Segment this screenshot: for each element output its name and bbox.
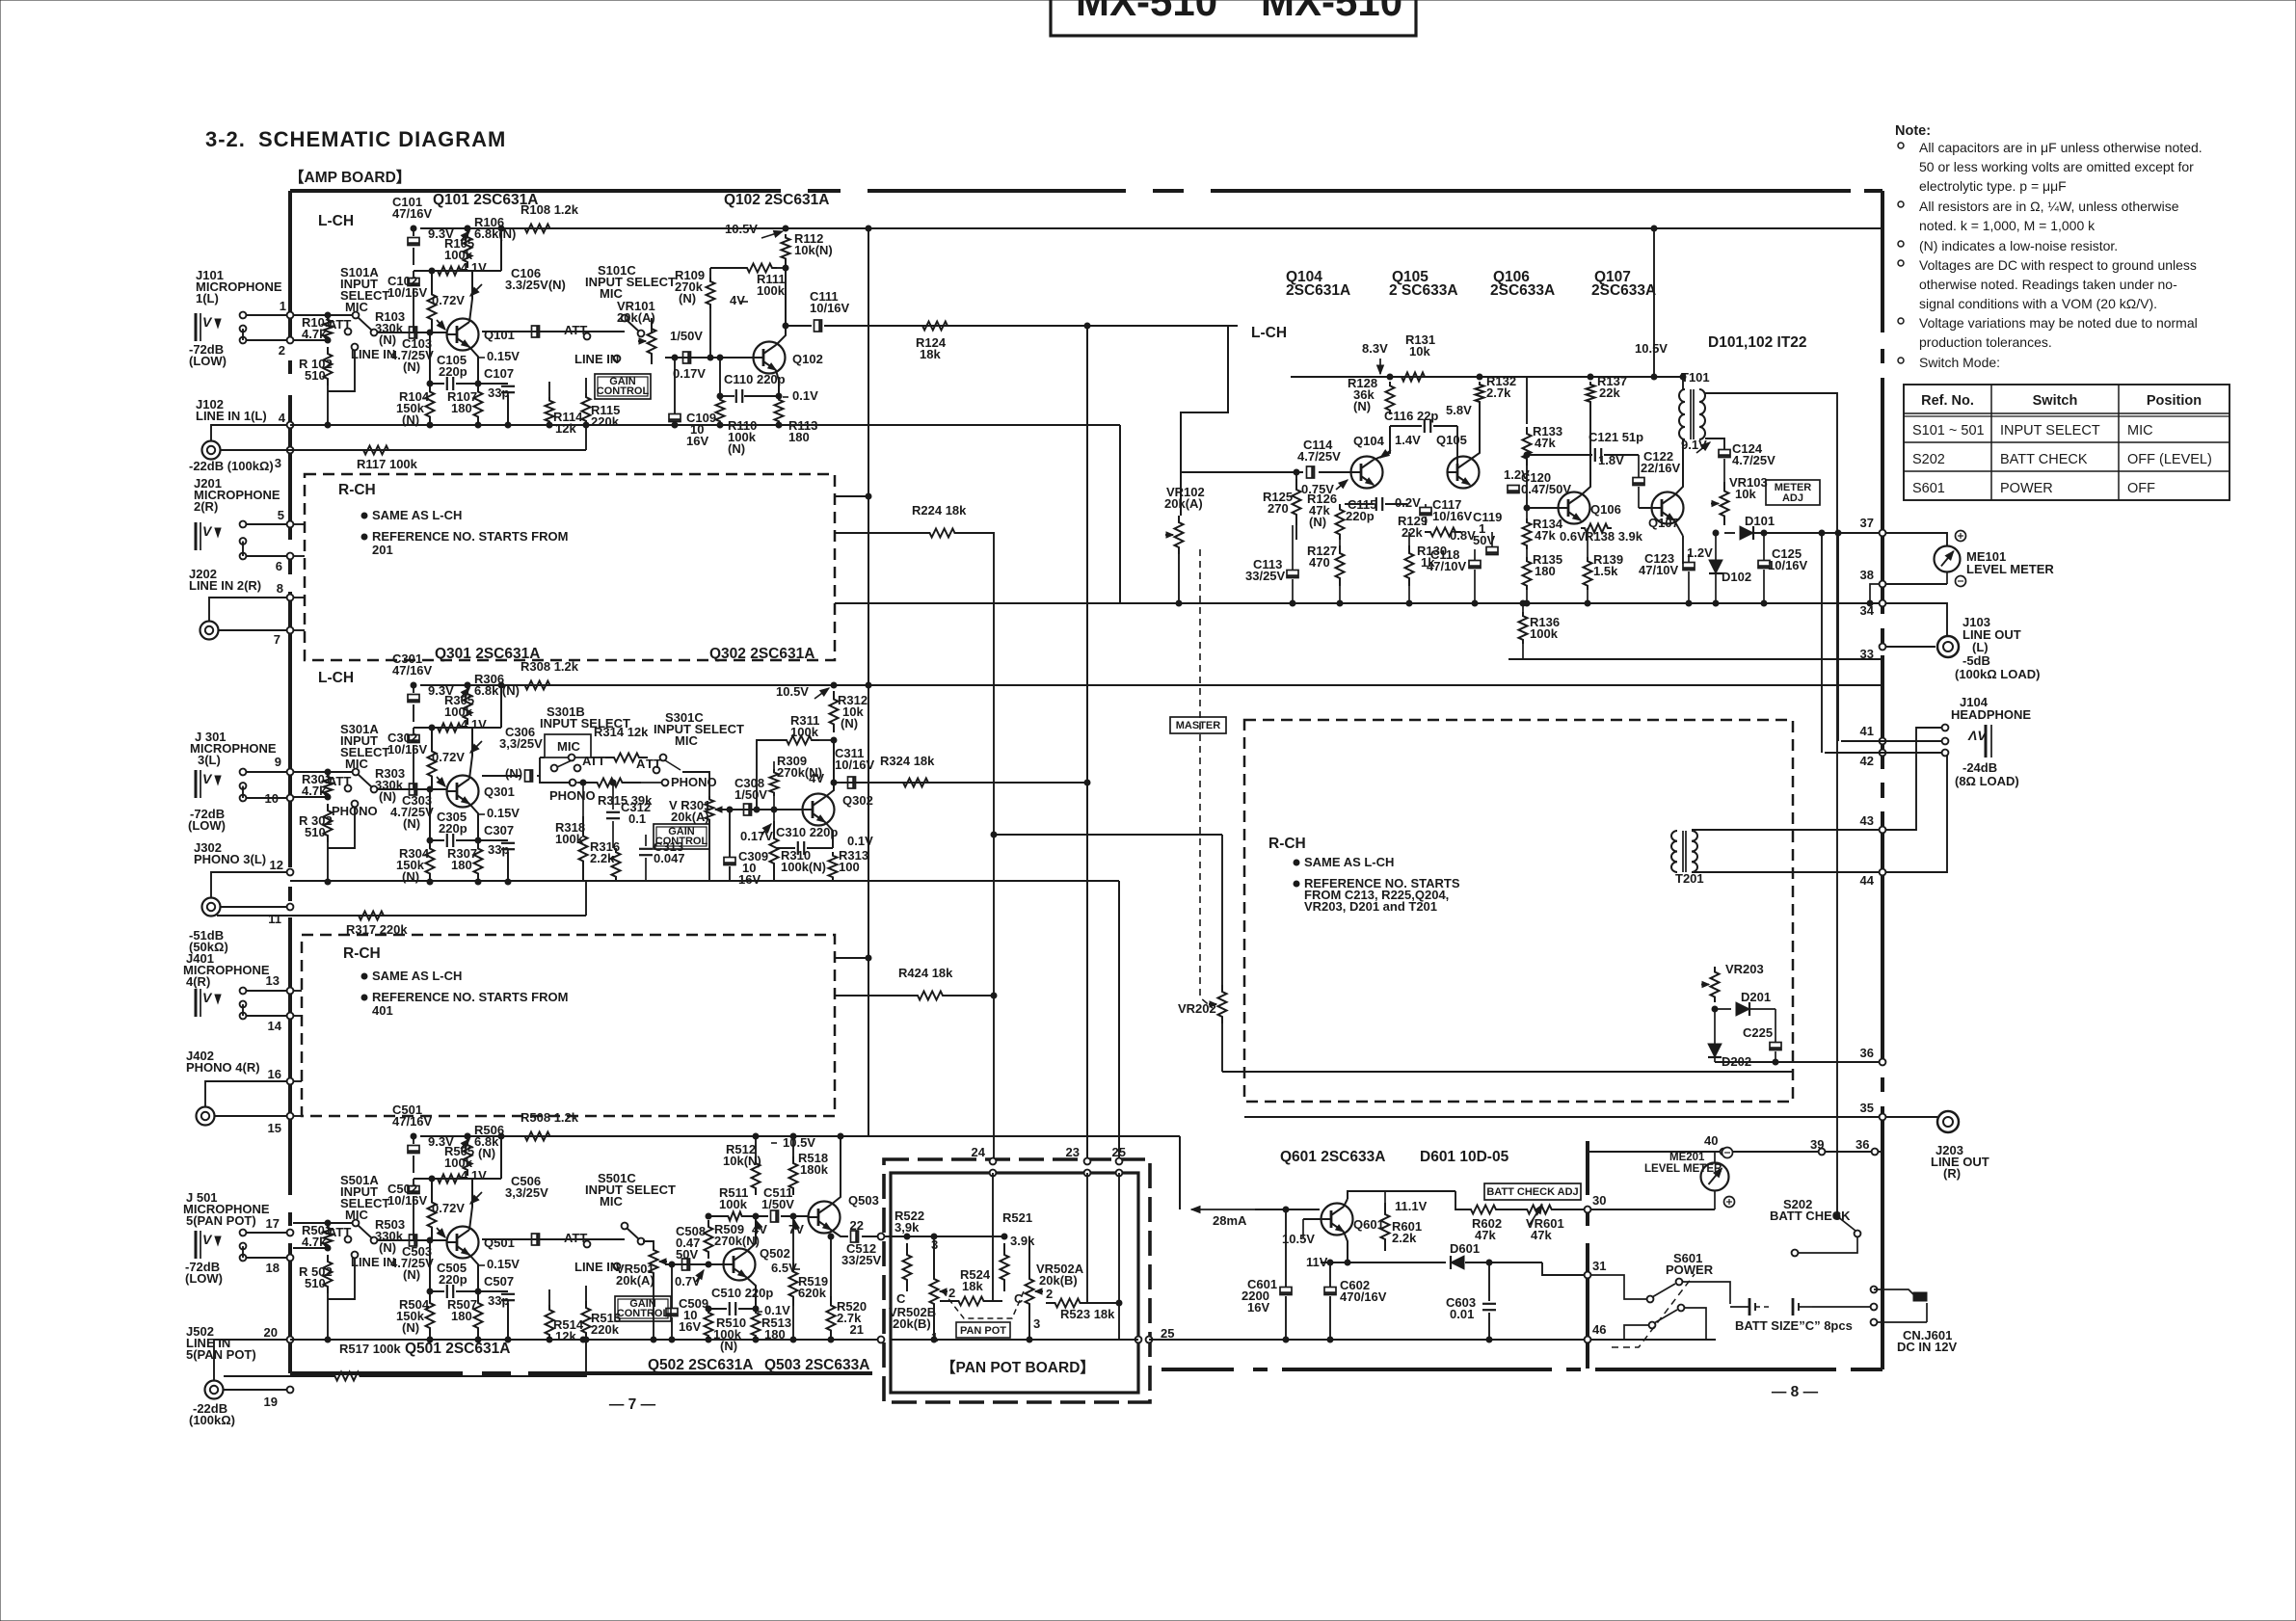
svg-text:VR202: VR202 bbox=[1178, 1001, 1216, 1016]
svg-text:Q105: Q105 bbox=[1436, 433, 1467, 447]
diode D201 bbox=[1715, 1008, 1731, 1010]
capacitor C303 bbox=[410, 784, 417, 795]
svg-text:MIC: MIC bbox=[2127, 423, 2153, 438]
resistor R309 bbox=[770, 769, 779, 796]
svg-text:33p: 33p bbox=[488, 1293, 509, 1308]
wire VR202 vertical bbox=[1221, 835, 1223, 985]
svg-text:47k: 47k bbox=[1475, 1228, 1496, 1242]
svg-text:10/16V: 10/16V bbox=[387, 1193, 428, 1208]
resistor R115 bbox=[582, 393, 591, 425]
wire collector Q302 bbox=[825, 740, 834, 797]
junction dots rail right bbox=[547, 1337, 552, 1342]
svg-text:Switch: Switch bbox=[2033, 393, 2078, 409]
wire batt to 46 bbox=[1590, 1339, 1716, 1341]
svg-text:R523 18k: R523 18k bbox=[1060, 1307, 1115, 1321]
wire bus A down bbox=[868, 228, 869, 1136]
svg-text:5(PAN POT): 5(PAN POT) bbox=[186, 1347, 256, 1362]
svg-text:Q601: Q601 bbox=[1353, 1217, 1384, 1232]
wire bbox=[247, 339, 287, 341]
wire pan in bbox=[884, 1236, 907, 1237]
pin 33 bbox=[1880, 644, 1886, 651]
wire bbox=[247, 1232, 287, 1234]
wire T201 to 44 bbox=[1692, 871, 1882, 873]
capacitor C123 bbox=[1683, 563, 1695, 571]
wire bbox=[247, 1257, 287, 1259]
resistor R133 bbox=[1523, 427, 1532, 465]
svg-text:0.047: 0.047 bbox=[654, 851, 685, 865]
wire 38 bbox=[1885, 583, 1947, 585]
svg-text:10/16V: 10/16V bbox=[387, 285, 428, 300]
svg-text:620k: 620k bbox=[798, 1286, 827, 1300]
svg-text:10.5V: 10.5V bbox=[1282, 1232, 1315, 1246]
wire T101 secondary top bbox=[1705, 393, 1837, 1216]
resistor R304 bbox=[426, 840, 435, 882]
diode D601 bbox=[1451, 1256, 1464, 1269]
svg-text:R517 100k: R517 100k bbox=[339, 1342, 401, 1356]
svg-text:Q106: Q106 bbox=[1590, 502, 1621, 517]
pin 46 bbox=[1585, 1337, 1591, 1343]
svg-text:0.72V: 0.72V bbox=[432, 293, 465, 307]
transistor Q301 bbox=[447, 776, 479, 808]
resistor R305 bbox=[434, 724, 465, 732]
wire base bbox=[377, 332, 446, 333]
svg-text:8.3V: 8.3V bbox=[1362, 341, 1388, 356]
svg-text:— 7 —: — 7 — bbox=[609, 1396, 656, 1413]
svg-text:12k: 12k bbox=[555, 1329, 576, 1343]
wire T101 secondary bottom bbox=[1705, 438, 1724, 449]
transistor Q302 bbox=[803, 794, 835, 826]
svg-text:All resistors are in Ω, ¼W, un: All resistors are in Ω, ¼W, unless other… bbox=[1919, 199, 2179, 214]
transistor Q101 bbox=[447, 319, 479, 351]
svg-text:4: 4 bbox=[279, 411, 286, 425]
svg-text:HEADPHONE: HEADPHONE bbox=[1951, 707, 2031, 722]
svg-text:3(L): 3(L) bbox=[198, 753, 221, 767]
svg-text:20k(B): 20k(B) bbox=[893, 1316, 931, 1331]
svg-text:33p: 33p bbox=[488, 385, 509, 400]
wire line-in drop bbox=[327, 1293, 329, 1340]
svg-text:16V: 16V bbox=[738, 872, 761, 887]
resistor R508 bbox=[511, 1132, 564, 1141]
svg-text:180: 180 bbox=[764, 1327, 786, 1342]
svg-text:47/16V: 47/16V bbox=[392, 206, 433, 221]
wire base Q302 bbox=[718, 809, 803, 810]
wire 33 to J103 bbox=[1885, 646, 1936, 648]
svg-text:2(R): 2(R) bbox=[194, 499, 218, 514]
wire T201 to 43 bbox=[1692, 829, 1882, 831]
svg-text:Q102: Q102 bbox=[792, 352, 823, 366]
svg-text:35: 35 bbox=[1860, 1101, 1874, 1115]
svg-text:1/50V: 1/50V bbox=[734, 787, 767, 802]
svg-text:470: 470 bbox=[1309, 555, 1330, 570]
resistor R509 bbox=[705, 1220, 713, 1259]
svg-text:PHONO 3(L): PHONO 3(L) bbox=[194, 852, 266, 866]
svg-text:18k: 18k bbox=[920, 347, 941, 361]
potentiometer VR301 bbox=[706, 796, 714, 823]
wire ch3 out bbox=[841, 782, 858, 784]
svg-text:11: 11 bbox=[268, 912, 281, 926]
wire rch2 out1 bbox=[835, 957, 868, 959]
resistor R302 bbox=[324, 804, 333, 842]
svg-text:13: 13 bbox=[266, 973, 280, 988]
svg-text:Q301: Q301 bbox=[484, 784, 515, 799]
resistor R424 bbox=[906, 992, 954, 1000]
wire rch2 out2 bbox=[835, 995, 906, 997]
svg-text:Q501 2SC631A: Q501 2SC631A bbox=[405, 1341, 510, 1357]
resistor R311 bbox=[779, 736, 819, 745]
svg-text:23: 23 bbox=[1066, 1145, 1080, 1159]
wire power rail bbox=[1255, 1209, 1320, 1210]
svg-text:34: 34 bbox=[1860, 603, 1875, 618]
svg-text:Q502 2SC631A: Q502 2SC631A bbox=[648, 1357, 753, 1373]
wire emitter2 bbox=[776, 370, 779, 396]
svg-text:(R): (R) bbox=[1943, 1166, 1961, 1181]
svg-text:1.8V: 1.8V bbox=[1598, 453, 1624, 467]
wire base Q502 bbox=[665, 1263, 723, 1265]
svg-text:401: 401 bbox=[372, 1003, 393, 1018]
wire pin13 into box bbox=[293, 990, 302, 992]
capacitor C309 bbox=[724, 858, 735, 865]
capacitor C310 bbox=[776, 847, 795, 849]
resistor R602 bbox=[1465, 1206, 1502, 1214]
switch mode table bbox=[1904, 385, 2229, 500]
wire node36 bbox=[1715, 1061, 1882, 1063]
wire node33 bbox=[1508, 658, 1882, 660]
resistor R513 bbox=[752, 1309, 761, 1340]
svg-text:4.7k: 4.7k bbox=[302, 327, 327, 341]
svg-text:R-CH: R-CH bbox=[343, 945, 381, 962]
wire ch top bus bbox=[420, 227, 1882, 229]
svg-text:LINE IN 2(R): LINE IN 2(R) bbox=[189, 578, 261, 593]
svg-text:20k(B): 20k(B) bbox=[1039, 1273, 1078, 1288]
wire emitter bbox=[469, 804, 478, 840]
svg-text:100k: 100k bbox=[555, 832, 584, 846]
svg-text:(N): (N) bbox=[728, 441, 745, 456]
svg-text:19: 19 bbox=[264, 1395, 278, 1409]
svg-text:(LOW): (LOW) bbox=[185, 1271, 223, 1286]
svg-text:production tolerances.: production tolerances. bbox=[1919, 334, 2052, 350]
resistor R224 bbox=[921, 529, 964, 538]
svg-text:TT: TT bbox=[646, 757, 661, 771]
svg-text:VR203: VR203 bbox=[1725, 962, 1764, 976]
wire bbox=[548, 1289, 550, 1305]
svg-text:3: 3 bbox=[931, 1237, 938, 1252]
wire mic row bbox=[540, 757, 545, 758]
svg-text:16V: 16V bbox=[679, 1319, 701, 1334]
capacitor C503 bbox=[410, 1235, 417, 1246]
wire q601 top bbox=[1348, 1191, 1388, 1199]
wire bbox=[247, 314, 287, 316]
wire s202 bbox=[1799, 1237, 1857, 1253]
svg-text:Q601 2SC633A: Q601 2SC633A bbox=[1280, 1149, 1385, 1165]
svg-text:20k(A): 20k(A) bbox=[671, 810, 709, 824]
AMP BOARD left border bbox=[288, 191, 292, 339]
svg-text:33p: 33p bbox=[488, 842, 509, 857]
svg-text:(100kΩ LOAD): (100kΩ LOAD) bbox=[1955, 667, 2040, 681]
wire bbox=[431, 271, 433, 281]
wire s301c out bbox=[682, 772, 709, 796]
svg-text:R-CH: R-CH bbox=[1268, 836, 1306, 852]
pin 30 bbox=[1585, 1207, 1591, 1213]
wire 42 feed bbox=[1821, 533, 1823, 753]
svg-text:47k: 47k bbox=[1535, 528, 1556, 543]
resistor R134 bbox=[1523, 518, 1532, 549]
svg-text:Q302 2SC631A: Q302 2SC631A bbox=[709, 646, 814, 662]
wire bbox=[247, 1015, 287, 1017]
capacitor C511 bbox=[771, 1210, 779, 1222]
svg-text:18k: 18k bbox=[962, 1279, 983, 1293]
svg-text:10.5V: 10.5V bbox=[776, 684, 809, 699]
capacitor C118 bbox=[1469, 561, 1481, 569]
svg-text:MX-510: MX-510 bbox=[1076, 0, 1217, 24]
capacitor C601 bbox=[1280, 1288, 1292, 1295]
svg-text:28mA: 28mA bbox=[1213, 1213, 1247, 1228]
svg-text:4.7/25V: 4.7/25V bbox=[1732, 453, 1775, 467]
svg-text:0.8V: 0.8V bbox=[1450, 528, 1476, 543]
wire Q601 emitter bbox=[1344, 1232, 1348, 1262]
wire base bbox=[377, 788, 446, 790]
svg-text:42: 42 bbox=[1860, 754, 1874, 768]
svg-text:INPUT SELECT: INPUT SELECT bbox=[654, 722, 744, 736]
svg-text:24: 24 bbox=[972, 1145, 986, 1159]
svg-text:0.15V: 0.15V bbox=[487, 806, 520, 820]
svg-text:TT: TT bbox=[590, 754, 605, 768]
wire bbox=[328, 350, 355, 391]
wire ch2 rail to master bbox=[835, 602, 1882, 604]
resistor R310 bbox=[770, 821, 779, 881]
svg-text:14: 14 bbox=[268, 1019, 282, 1033]
capacitor C113 bbox=[1287, 571, 1298, 578]
svg-text:0.15V: 0.15V bbox=[487, 349, 520, 363]
capacitor C603 bbox=[1482, 1303, 1496, 1305]
resistor R117 bbox=[347, 446, 405, 455]
svg-text:2 SC633A: 2 SC633A bbox=[1389, 282, 1458, 299]
svg-text:BATT CHECK: BATT CHECK bbox=[2000, 452, 2088, 467]
master linkage dashed bbox=[1200, 549, 1213, 1008]
svg-text:electrolytic type. p = μμF: electrolytic type. p = μμF bbox=[1919, 178, 2067, 194]
resistor R103 bbox=[428, 281, 437, 332]
transistor Q105 bbox=[1448, 457, 1480, 489]
capacitor C510 bbox=[708, 1308, 727, 1310]
svg-text:R224 18k: R224 18k bbox=[912, 503, 967, 518]
svg-text:10/16V: 10/16V bbox=[810, 301, 850, 315]
resistor R101 bbox=[324, 317, 333, 340]
svg-text:4.7k: 4.7k bbox=[302, 784, 327, 798]
capacitor C311 bbox=[848, 777, 856, 788]
svg-text:1(L): 1(L) bbox=[196, 291, 219, 306]
wire bbox=[964, 533, 994, 1161]
svg-text:220p: 220p bbox=[439, 364, 467, 379]
junction dots ch5 rail bbox=[580, 1337, 586, 1342]
resistor R111 bbox=[742, 264, 777, 273]
potentiometer VR101 bbox=[651, 318, 653, 333]
svg-text:22/16V: 22/16V bbox=[1641, 461, 1681, 475]
svg-text:4.1V: 4.1V bbox=[461, 717, 487, 731]
svg-text:C307: C307 bbox=[484, 823, 514, 837]
resistor R521 bbox=[1001, 1243, 1009, 1291]
resistor R104 bbox=[426, 384, 435, 425]
wire bbox=[500, 1136, 502, 1179]
wire bbox=[1089, 1302, 1119, 1304]
resistor R106 bbox=[464, 231, 472, 268]
svg-text:10/16V: 10/16V bbox=[1768, 558, 1808, 572]
svg-text:R138 3.9k: R138 3.9k bbox=[1585, 529, 1643, 544]
transistor Q502 bbox=[724, 1249, 756, 1281]
wire 30 meter bbox=[1590, 1209, 1715, 1210]
wire 44 bbox=[1885, 756, 1947, 872]
svg-text:20: 20 bbox=[264, 1325, 278, 1340]
svg-text:R314 12k: R314 12k bbox=[594, 725, 649, 739]
resistor R312 bbox=[830, 691, 839, 732]
svg-text:Q107: Q107 bbox=[1648, 516, 1679, 530]
svg-text:2: 2 bbox=[1046, 1287, 1053, 1301]
wire rch1 out1 bbox=[835, 495, 868, 497]
svg-text:2.2k: 2.2k bbox=[1392, 1231, 1417, 1245]
svg-text:15: 15 bbox=[268, 1121, 281, 1135]
potentiometer VR601 bbox=[1523, 1206, 1556, 1214]
svg-text:ATT: ATT bbox=[564, 1231, 587, 1245]
svg-text:S101 ~ 501: S101 ~ 501 bbox=[1912, 423, 1985, 438]
svg-text:CONTROL: CONTROL bbox=[617, 1308, 670, 1319]
svg-text:220p: 220p bbox=[439, 821, 467, 836]
svg-text:21: 21 bbox=[850, 1322, 864, 1337]
svg-text:5.8V: 5.8V bbox=[1446, 403, 1472, 417]
wire bbox=[1388, 1190, 1455, 1192]
svg-text:CONTROL: CONTROL bbox=[655, 836, 708, 847]
svg-text:0.1V: 0.1V bbox=[792, 388, 818, 403]
svg-text:MIC: MIC bbox=[600, 1194, 623, 1209]
svg-text:4.1V: 4.1V bbox=[461, 260, 487, 275]
svg-text:41: 41 bbox=[1860, 724, 1874, 738]
svg-text:A: A bbox=[636, 757, 646, 771]
wire rch master rail bbox=[1222, 1071, 1793, 1073]
svg-text:1.2V: 1.2V bbox=[1687, 545, 1713, 560]
svg-text:(N) indicates a low-noise resi: (N) indicates a low-noise resistor. bbox=[1919, 238, 2118, 253]
potentiometer VR202 bbox=[1218, 985, 1227, 1023]
resistor R523 bbox=[1046, 1299, 1089, 1308]
resistor R107 bbox=[474, 384, 483, 425]
svg-text:180: 180 bbox=[1535, 564, 1556, 578]
junction dots rail bbox=[325, 1337, 331, 1342]
capacitor C305 bbox=[429, 789, 431, 840]
svg-text:201: 201 bbox=[372, 543, 393, 557]
svg-text:10k(N): 10k(N) bbox=[723, 1154, 761, 1168]
wire 34 to J103 bbox=[1885, 603, 1947, 635]
wire bbox=[219, 629, 287, 631]
resistor R520 bbox=[827, 1296, 836, 1340]
transformer T201 bbox=[1671, 831, 1677, 872]
wire emitter Q302 bbox=[825, 822, 833, 848]
capacitor C312 bbox=[612, 783, 614, 810]
svg-text:1: 1 bbox=[280, 299, 286, 313]
resistor R128 bbox=[1386, 382, 1395, 414]
svg-text:3-2.: 3-2. bbox=[205, 127, 246, 151]
svg-text:Q101: Q101 bbox=[484, 328, 515, 342]
resistor R517 bbox=[290, 1372, 405, 1381]
svg-text:C310 220p: C310 220p bbox=[776, 825, 838, 839]
capacitor C307 bbox=[478, 839, 508, 841]
resistor R514 bbox=[546, 1305, 554, 1340]
svg-text:Q503 2SC633A: Q503 2SC633A bbox=[764, 1357, 869, 1373]
wire pin16 into box bbox=[293, 1080, 302, 1082]
svg-text:D101: D101 bbox=[1745, 514, 1775, 528]
svg-text:L-CH: L-CH bbox=[318, 213, 354, 229]
svg-text:39: 39 bbox=[1810, 1137, 1824, 1152]
svg-text:4.7k: 4.7k bbox=[302, 1235, 327, 1249]
svg-text:(N): (N) bbox=[379, 789, 396, 804]
svg-text:220k: 220k bbox=[591, 414, 620, 429]
wire s601 lower bbox=[1624, 1325, 1649, 1340]
resistor R519 bbox=[789, 1262, 798, 1306]
svg-text:POWER: POWER bbox=[1666, 1262, 1714, 1277]
svg-text:180: 180 bbox=[788, 430, 810, 444]
diode D102 bbox=[1709, 560, 1722, 573]
meter ME201 bbox=[1701, 1163, 1729, 1191]
resistor R132 bbox=[1476, 382, 1484, 405]
svg-text:C119: C119 bbox=[1473, 510, 1502, 524]
pin 44 bbox=[1880, 869, 1886, 876]
svg-text:C: C bbox=[896, 1291, 906, 1306]
svg-text:5: 5 bbox=[278, 508, 284, 522]
svg-text:1.4V: 1.4V bbox=[1395, 433, 1421, 447]
svg-text:Q104: Q104 bbox=[1353, 434, 1385, 448]
svg-text:SAME AS L-CH: SAME AS L-CH bbox=[1304, 855, 1394, 869]
svg-text:Q502: Q502 bbox=[760, 1246, 790, 1261]
wire Q107 base bbox=[1639, 507, 1652, 509]
wire ch5 rail bbox=[290, 1339, 881, 1341]
wire base bbox=[377, 1239, 446, 1241]
svg-text:25: 25 bbox=[1161, 1326, 1174, 1341]
svg-text:(N): (N) bbox=[379, 1240, 396, 1255]
wire Q503 collector bbox=[831, 1136, 841, 1205]
resistor R137 bbox=[1587, 382, 1595, 405]
svg-text:22: 22 bbox=[850, 1218, 864, 1233]
wire pin7 into box bbox=[293, 629, 305, 631]
svg-text:4V: 4V bbox=[809, 771, 824, 785]
transistor Q107 bbox=[1652, 492, 1684, 524]
svg-text:6.8k(N): 6.8k(N) bbox=[474, 226, 516, 241]
svg-text:33/25V: 33/25V bbox=[1245, 569, 1286, 583]
wire bbox=[500, 685, 502, 728]
svg-text:47/16V: 47/16V bbox=[392, 1114, 433, 1129]
svg-text:1/50V: 1/50V bbox=[761, 1197, 794, 1211]
resistor R307 bbox=[474, 840, 483, 882]
capacitor C121 bbox=[1527, 454, 1592, 456]
svg-text:MASTER: MASTER bbox=[1176, 720, 1221, 731]
svg-text:C107: C107 bbox=[484, 366, 514, 381]
svg-text:510: 510 bbox=[305, 1276, 326, 1290]
resistor R502 bbox=[324, 1255, 333, 1293]
capacitor C102 bbox=[413, 271, 414, 277]
resistor R138 bbox=[1581, 524, 1612, 533]
resistor R315 bbox=[578, 779, 641, 787]
svg-text:1.5k: 1.5k bbox=[1593, 564, 1618, 578]
wire interstage2 bbox=[708, 1215, 726, 1217]
svg-text:47k: 47k bbox=[1531, 1228, 1552, 1242]
resistor R518 bbox=[792, 1136, 794, 1156]
resistor R113 bbox=[775, 396, 784, 425]
svg-text:33: 33 bbox=[1860, 647, 1874, 661]
svg-text:R308 1.2k: R308 1.2k bbox=[521, 659, 579, 674]
headphone top contact bbox=[1942, 725, 1949, 731]
junction dots rail right bbox=[547, 422, 552, 428]
potentiometer VR501 ch5 bbox=[643, 1241, 654, 1246]
svg-text:36: 36 bbox=[1855, 1137, 1869, 1152]
wire c306 split bbox=[540, 757, 545, 758]
resistor R317 bbox=[347, 912, 395, 920]
svg-text:10.5V: 10.5V bbox=[1635, 341, 1668, 356]
svg-text:17: 17 bbox=[266, 1216, 280, 1231]
AMP BOARD right border bbox=[1881, 191, 1884, 332]
